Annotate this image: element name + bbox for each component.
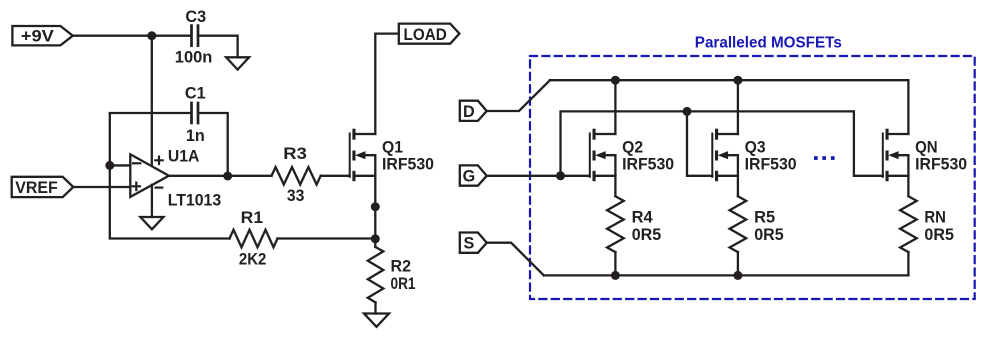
wire R5 to source rail [737, 252, 739, 275]
junction gate tap [556, 171, 565, 180]
svg-text:LT1013: LT1013 [168, 192, 222, 210]
transistor Q3 [712, 129, 796, 182]
junction output node [223, 172, 232, 181]
capacitor C3 [175, 8, 213, 67]
svg-text:0R1: 0R1 [391, 275, 416, 293]
wire VREF to non-inverting input [73, 186, 130, 188]
junction 9V node [147, 31, 156, 40]
op-amp U1A [130, 148, 221, 210]
wire drain rail [550, 80, 909, 134]
svg-text:Q1: Q1 [382, 139, 403, 157]
wire QN source to RN [907, 176, 909, 196]
svg-text:LOAD: LOAD [404, 26, 447, 44]
net label G [460, 165, 487, 185]
resistor R3 [272, 145, 321, 205]
svg-text:100n: 100n [175, 49, 213, 67]
resistor R4 [607, 196, 661, 252]
junction inverting input node [105, 161, 114, 170]
wire +9V to op-amp V+ [151, 36, 153, 167]
net label +9V [12, 26, 72, 46]
svg-text:D: D [463, 103, 475, 121]
svg-text:2K2: 2K2 [239, 250, 267, 268]
junction Q3 drain [733, 76, 742, 85]
svg-text:0R5: 0R5 [632, 226, 662, 244]
wire source rail [544, 274, 909, 276]
resistor R5 [730, 196, 784, 252]
wire D to drain rail [487, 80, 550, 111]
resistor R2 [368, 247, 416, 302]
wire +9V rail [73, 35, 191, 37]
wire to inverting input [110, 164, 131, 166]
svg-text:0R5: 0R5 [754, 226, 784, 244]
svg-text:Paralleled MOSFETs: Paralleled MOSFETs [695, 35, 842, 52]
wire Q3 drain riser [737, 80, 739, 134]
wire Q2 drain riser [614, 80, 616, 134]
wire R1 to source node [278, 237, 376, 239]
svg-text:IRF530: IRF530 [745, 156, 797, 174]
capacitor C1 [185, 85, 206, 145]
svg-text:R5: R5 [754, 208, 775, 226]
junction R5 bottom [733, 271, 742, 280]
net label S [460, 233, 487, 253]
wire op-amp output [169, 175, 272, 177]
ground (R2) [364, 314, 389, 327]
svg-text:RN: RN [924, 208, 946, 226]
wire op-amp V- to ground [151, 185, 153, 217]
wire R2 to ground [374, 302, 376, 313]
svg-text:IRF530: IRF530 [382, 156, 434, 174]
transistor Q2 [590, 129, 674, 182]
svg-text:33: 33 [287, 187, 305, 205]
net label VREF [12, 177, 74, 197]
wire C3 to ground [199, 36, 237, 58]
svg-text:IRF530: IRF530 [915, 156, 967, 174]
svg-text:C1: C1 [185, 85, 206, 103]
wire Q1 drain to LOAD [375, 34, 399, 134]
wire S to source rail [487, 243, 544, 276]
transistor QN [883, 129, 967, 182]
net label LOAD [399, 24, 460, 44]
junction feedback node [371, 234, 380, 243]
svg-text:QN: QN [915, 139, 938, 157]
wire Q2 source to R4 [614, 176, 616, 196]
wire Q3 gate riser [687, 111, 712, 175]
ellipsis more devices [814, 156, 835, 160]
svg-text:R3: R3 [283, 145, 307, 163]
svg-text:R4: R4 [632, 208, 653, 226]
svg-text:U1A: U1A [168, 148, 200, 166]
svg-text:+9V: +9V [21, 28, 54, 46]
ground (C3) [226, 57, 249, 69]
wire feedback left rail to bottom [110, 165, 230, 238]
svg-text:R2: R2 [391, 257, 412, 275]
wire RN to source rail [907, 252, 909, 275]
wire Q1 source down [374, 176, 376, 247]
wire R3 to Q1 gate [321, 175, 350, 177]
wire gate over-rail [561, 111, 883, 175]
svg-text:G: G [463, 168, 476, 186]
ground (op-amp) [140, 217, 163, 229]
svg-text:VREF: VREF [15, 179, 58, 197]
junction source node [371, 202, 380, 211]
junction Q2 drain [611, 76, 620, 85]
wire G to Q2 gate [487, 175, 590, 177]
net label D [460, 101, 487, 121]
junction R4 bottom [611, 271, 620, 280]
svg-text:Q3: Q3 [745, 139, 766, 157]
transistor Q1 [350, 129, 434, 182]
junction Q3 gate tap [683, 107, 692, 116]
resistor RN [900, 196, 954, 252]
svg-text:S: S [464, 235, 475, 253]
wire C1 right to output node [199, 113, 228, 176]
svg-text:0R5: 0R5 [924, 226, 954, 244]
svg-text:C3: C3 [185, 8, 206, 26]
svg-text:IRF530: IRF530 [622, 156, 674, 174]
svg-text:R1: R1 [241, 209, 264, 227]
dashed enclosure box [530, 56, 975, 299]
svg-text:1n: 1n [186, 127, 205, 145]
wire R4 to source rail [614, 252, 616, 275]
wire C1 left loop [110, 113, 191, 165]
wire Q3 source to R5 [737, 176, 739, 196]
svg-text:Q2: Q2 [622, 139, 643, 157]
resistor R1 [230, 209, 278, 268]
